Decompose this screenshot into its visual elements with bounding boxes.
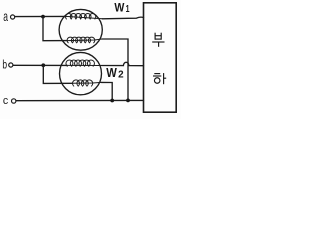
terminal a	[11, 15, 15, 19]
wire W2 voltage coil down to line c	[101, 82, 112, 100]
wire W1 voltage coil down to line c	[102, 39, 128, 100]
svg-text:W: W	[114, 1, 124, 15]
junction W1-c	[126, 99, 130, 103]
wattmeter W2 circle	[60, 52, 102, 94]
wattmeter W1 circle	[59, 9, 102, 50]
W2 current coil	[66, 60, 102, 66]
W1 current coil	[66, 14, 103, 19]
wire c horizontal to load	[16, 99, 143, 101]
svg-text:c: c	[3, 95, 9, 107]
svg-text:1: 1	[126, 4, 130, 15]
load text 하 (ha)	[153, 73, 166, 84]
junction b	[41, 63, 45, 67]
svg-text:b: b	[2, 60, 7, 72]
node c label	[3, 95, 9, 107]
label W2	[106, 66, 124, 80]
svg-text:a: a	[3, 8, 8, 24]
wire b horizontal	[13, 64, 67, 66]
node b label	[2, 60, 7, 72]
label W1	[114, 1, 129, 16]
junction W2-c	[110, 99, 114, 103]
wire W1 current coil to load	[102, 17, 143, 19]
svg-text:W: W	[106, 66, 117, 80]
wire W2 current coil to load with hop over W1 wire	[102, 62, 144, 65]
load text 부 (bu)	[152, 33, 164, 47]
node a label	[3, 8, 8, 24]
terminal b	[9, 63, 13, 67]
W2 voltage coil	[72, 80, 101, 86]
wire a branch to W1 voltage coil	[43, 17, 67, 41]
terminal c	[12, 99, 16, 103]
load box	[144, 3, 177, 112]
wire a horizontal	[15, 15, 66, 17]
junction a	[41, 15, 45, 19]
W1 voltage coil	[67, 37, 102, 43]
wire b branch to W2 voltage coil	[43, 65, 72, 83]
svg-text:2: 2	[118, 70, 124, 81]
